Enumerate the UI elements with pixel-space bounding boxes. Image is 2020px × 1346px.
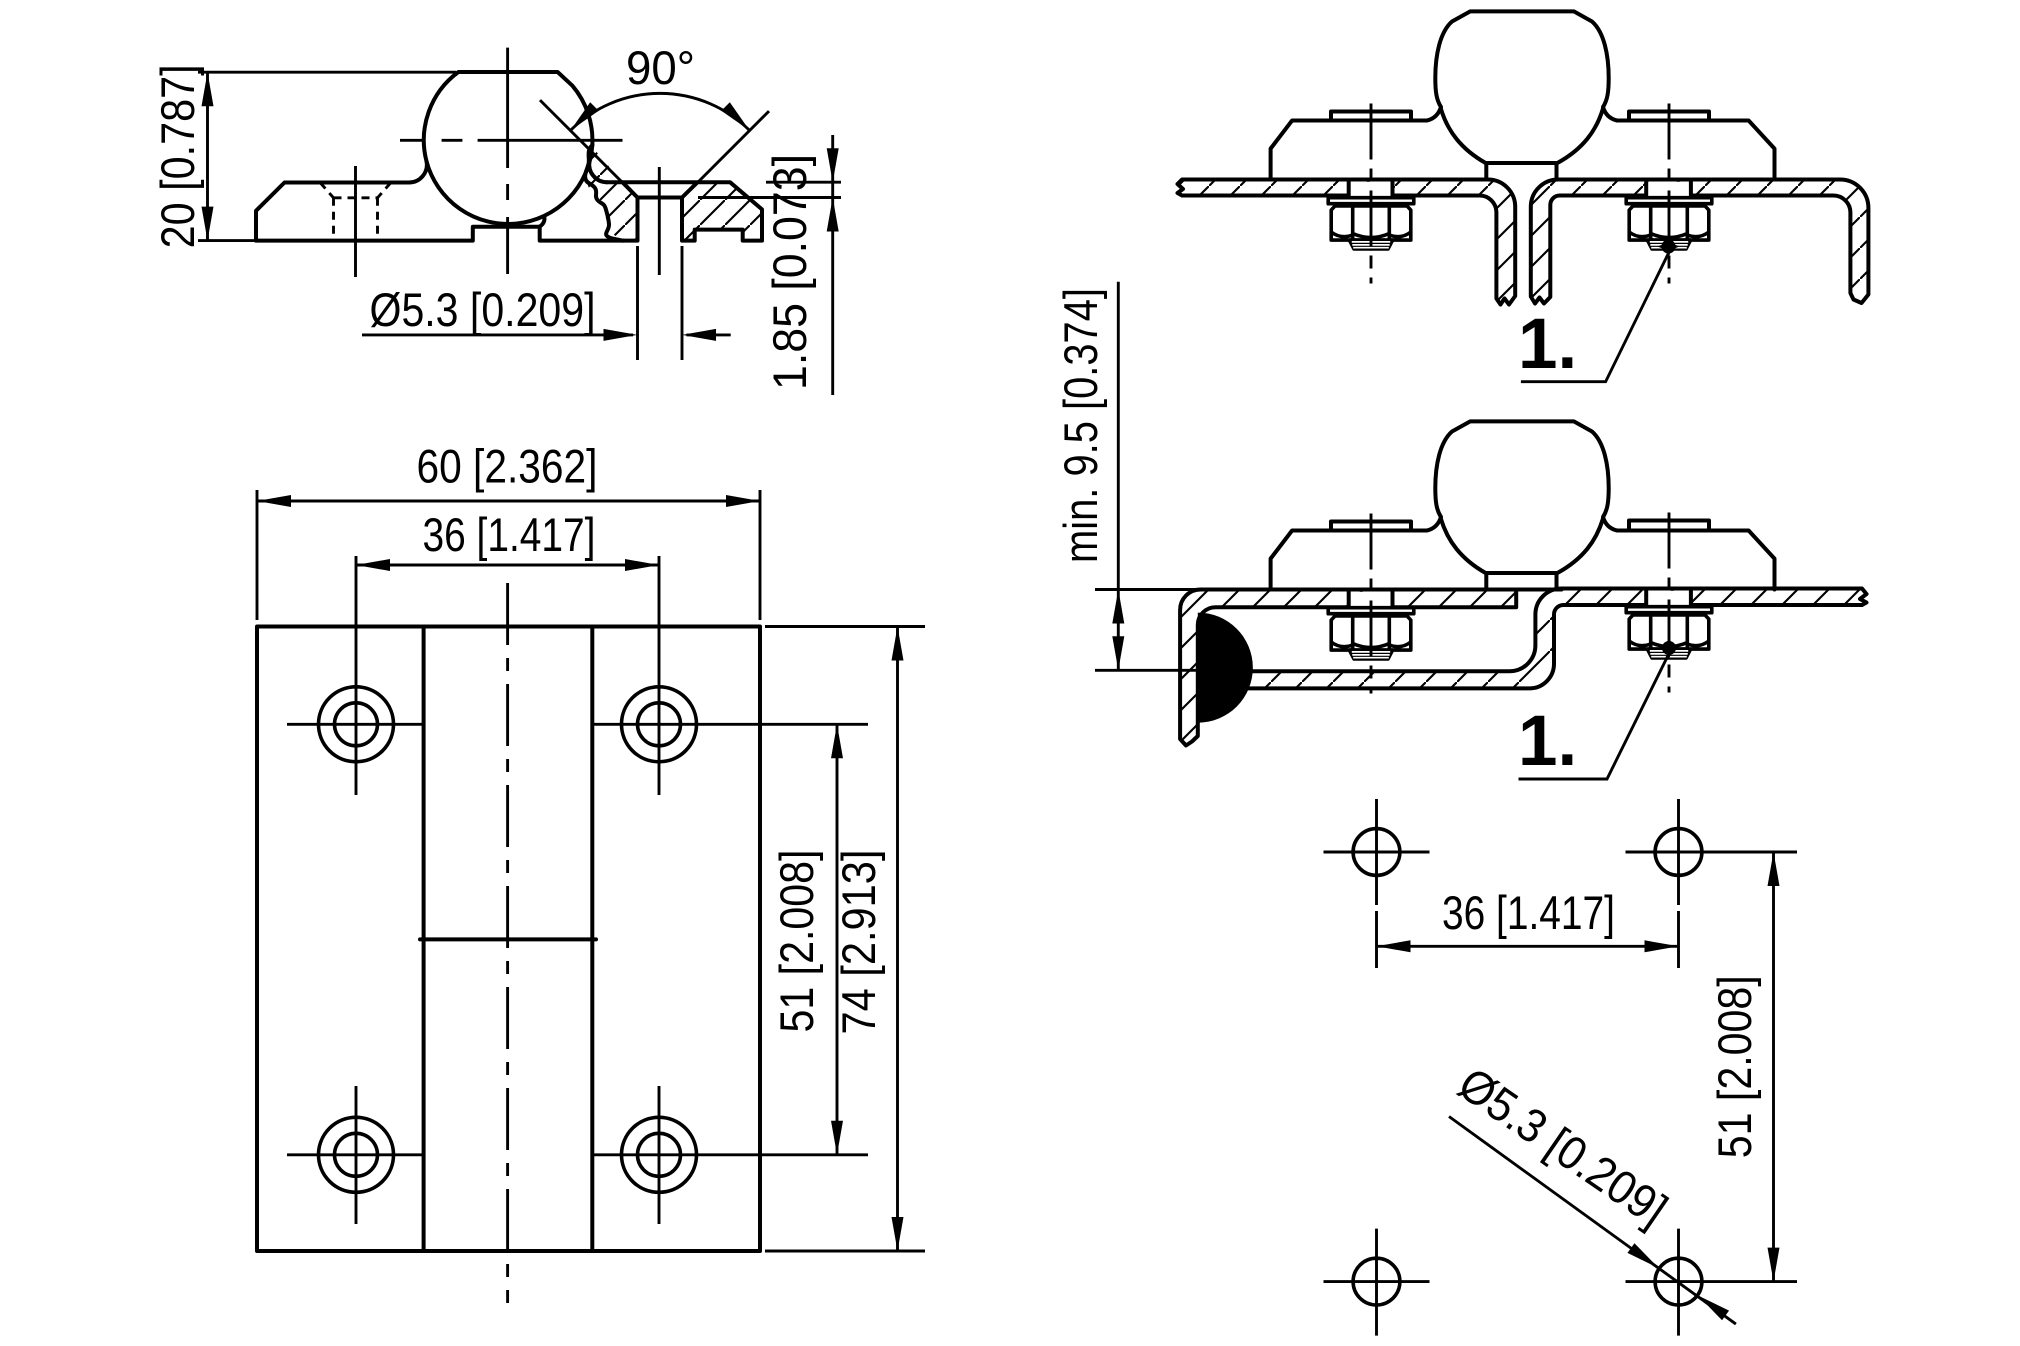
front view outer plate (257, 627, 760, 1252)
L-bracket sheet section (1180, 589, 1516, 745)
hole pattern bottom-left (1353, 1258, 1400, 1305)
dimension line diameter 5.3 (362, 333, 731, 336)
crosshair bottom-right (591, 1086, 868, 1224)
dimension 60 line (257, 500, 760, 503)
vertical centerline (506, 583, 509, 1303)
dimension 1.85 line (831, 135, 834, 395)
hinge side view: bottom edge with lift-off slot (256, 218, 624, 240)
hidden countersunk hole in left leaf (dashed) (320, 183, 391, 241)
crosshair bottom-left (287, 1086, 424, 1224)
break line (freehand squiggle) (585, 145, 622, 240)
hinge in offset mounted position (1271, 421, 1775, 589)
sectioned right leaf outline (607, 182, 762, 240)
dimension min 9.5 extension lines (1095, 590, 1242, 671)
Z-panel hole right screw (1646, 591, 1691, 608)
centerline of section hole (658, 167, 661, 275)
dimension min 9.5 line (1117, 282, 1120, 671)
knuckle edge lines (424, 627, 593, 1252)
hinge side view: left leaf outline (256, 72, 592, 241)
hinge in open mounted position (1271, 11, 1775, 179)
dimension 20 [0.787] line (206, 72, 209, 240)
diameter second arrow (1694, 1291, 1729, 1321)
svg-text:1.85 [0.073]: 1.85 [0.073] (763, 154, 816, 390)
ball vertical centerline (506, 48, 509, 274)
left fastener (1328, 104, 1414, 284)
panel hole right screw (1646, 182, 1691, 198)
dimension 51 line (836, 724, 839, 1155)
hole top-left (319, 687, 394, 762)
angle arc arrowheads (566, 102, 599, 135)
hole pattern top-left (1353, 829, 1400, 876)
hole bottom-right (622, 1117, 697, 1192)
svg-text:36 [1.417]: 36 [1.417] (1442, 886, 1615, 939)
dimension 74 line (896, 627, 899, 1252)
section hatching left of hole (586, 147, 637, 241)
Z-panel sheet section (1245, 588, 1867, 688)
90 degree countersink angle legs (540, 100, 769, 197)
right fillet into sectioned leaf (589, 161, 607, 182)
hole wall extension lines below part (638, 246, 683, 360)
centerline of left hole (354, 166, 357, 277)
svg-text:51 [2.008]: 51 [2.008] (1708, 975, 1761, 1158)
panel hole left screw (1349, 182, 1393, 198)
svg-text:51 [2.008]: 51 [2.008] (770, 850, 823, 1033)
dimension 36 line (1377, 945, 1679, 948)
right fastener (1626, 104, 1712, 284)
leader line to nut (1521, 251, 1670, 382)
crosshair top-right (594, 556, 868, 795)
crosshair top-left (287, 556, 424, 795)
svg-text:1.: 1. (1518, 305, 1577, 384)
dimension 60 extension lines (257, 490, 760, 620)
svg-text:Ø5.3 [0.209]: Ø5.3 [0.209] (370, 283, 596, 336)
diameter leader line (1449, 1117, 1736, 1325)
hole top-right (622, 687, 697, 762)
90 degree angle arc (570, 93, 749, 130)
dimension 51 line (1772, 852, 1775, 1282)
svg-text:90°: 90° (626, 41, 695, 94)
dimension 20 [0.787] extension lines (198, 72, 456, 240)
dimension 36 extension lines (1377, 911, 1679, 968)
dimension 36 line (356, 564, 659, 567)
weld bead (1198, 613, 1253, 723)
svg-text:36 [1.417]: 36 [1.417] (423, 508, 596, 561)
leader end marker (1658, 637, 1680, 659)
dimension 74 extension lines (765, 627, 925, 1252)
left fastener (1328, 514, 1414, 694)
leader end marker (1658, 236, 1680, 258)
leader line to nut (1519, 652, 1671, 780)
ball horizontal centerline (400, 139, 623, 142)
svg-text:1.: 1. (1518, 702, 1577, 781)
left panel sheet section (1178, 180, 1516, 305)
leaf joint line (420, 937, 596, 941)
svg-text:60 [2.362]: 60 [2.362] (417, 440, 598, 493)
right panel sheet section (1531, 180, 1869, 304)
hole pattern bottom-right (1655, 1258, 1702, 1305)
hole pattern top-right (1655, 829, 1702, 876)
svg-text:min. 9.5 [0.374]: min. 9.5 [0.374] (1054, 288, 1107, 563)
dimension 1.85 extension lines (698, 182, 841, 197)
boss bottom edge (1516, 588, 1561, 592)
bracket hole left screw (1349, 592, 1393, 608)
right fastener (1626, 513, 1712, 693)
hole bottom-left (319, 1117, 394, 1192)
ball bottom arc above slot (427, 145, 593, 224)
svg-text:74 [2.913]: 74 [2.913] (832, 850, 885, 1035)
svg-text:20 [0.787]: 20 [0.787] (151, 64, 204, 248)
section hatching right of hole (682, 182, 762, 240)
